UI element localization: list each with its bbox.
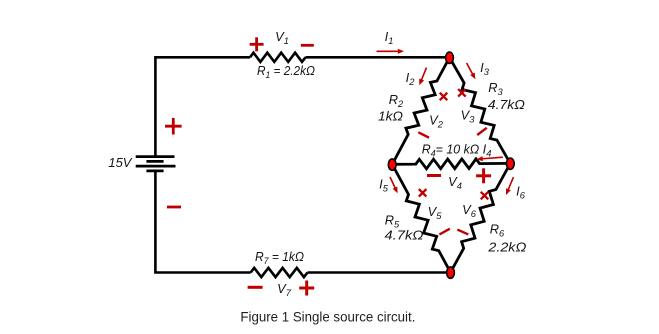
svg-text:I2: I2 <box>406 70 416 87</box>
svg-text:R7 = 1kΩ: R7 = 1kΩ <box>255 249 304 266</box>
svg-text:I5: I5 <box>379 177 389 194</box>
svg-text:V1: V1 <box>275 29 289 46</box>
svg-text:V2: V2 <box>429 113 444 130</box>
svg-text:1kΩ: 1kΩ <box>378 109 403 124</box>
svg-text:R6: R6 <box>490 222 505 239</box>
svg-text:V6: V6 <box>462 202 477 219</box>
svg-text:I6: I6 <box>516 184 526 201</box>
svg-text:I1: I1 <box>385 29 394 46</box>
svg-text:4.7kΩ: 4.7kΩ <box>488 97 525 112</box>
svg-text:R1 = 2.2kΩ: R1 = 2.2kΩ <box>257 63 315 80</box>
svg-text:V3: V3 <box>461 108 476 125</box>
svg-text:I3: I3 <box>480 60 490 77</box>
svg-text:V7: V7 <box>277 281 292 298</box>
svg-text:4.7kΩ: 4.7kΩ <box>385 228 424 243</box>
svg-text:I4: I4 <box>483 142 492 159</box>
svg-text:2.2kΩ: 2.2kΩ <box>487 240 526 255</box>
svg-text:V5: V5 <box>428 204 443 221</box>
svg-text:R3: R3 <box>488 80 503 97</box>
svg-text:R2: R2 <box>389 92 404 109</box>
svg-text:Figure 1 Single source circuit: Figure 1 Single source circuit. <box>240 310 415 326</box>
svg-text:R4= 10 kΩ: R4= 10 kΩ <box>422 142 480 159</box>
svg-text:V4: V4 <box>448 174 462 191</box>
svg-text:15V: 15V <box>108 155 132 170</box>
